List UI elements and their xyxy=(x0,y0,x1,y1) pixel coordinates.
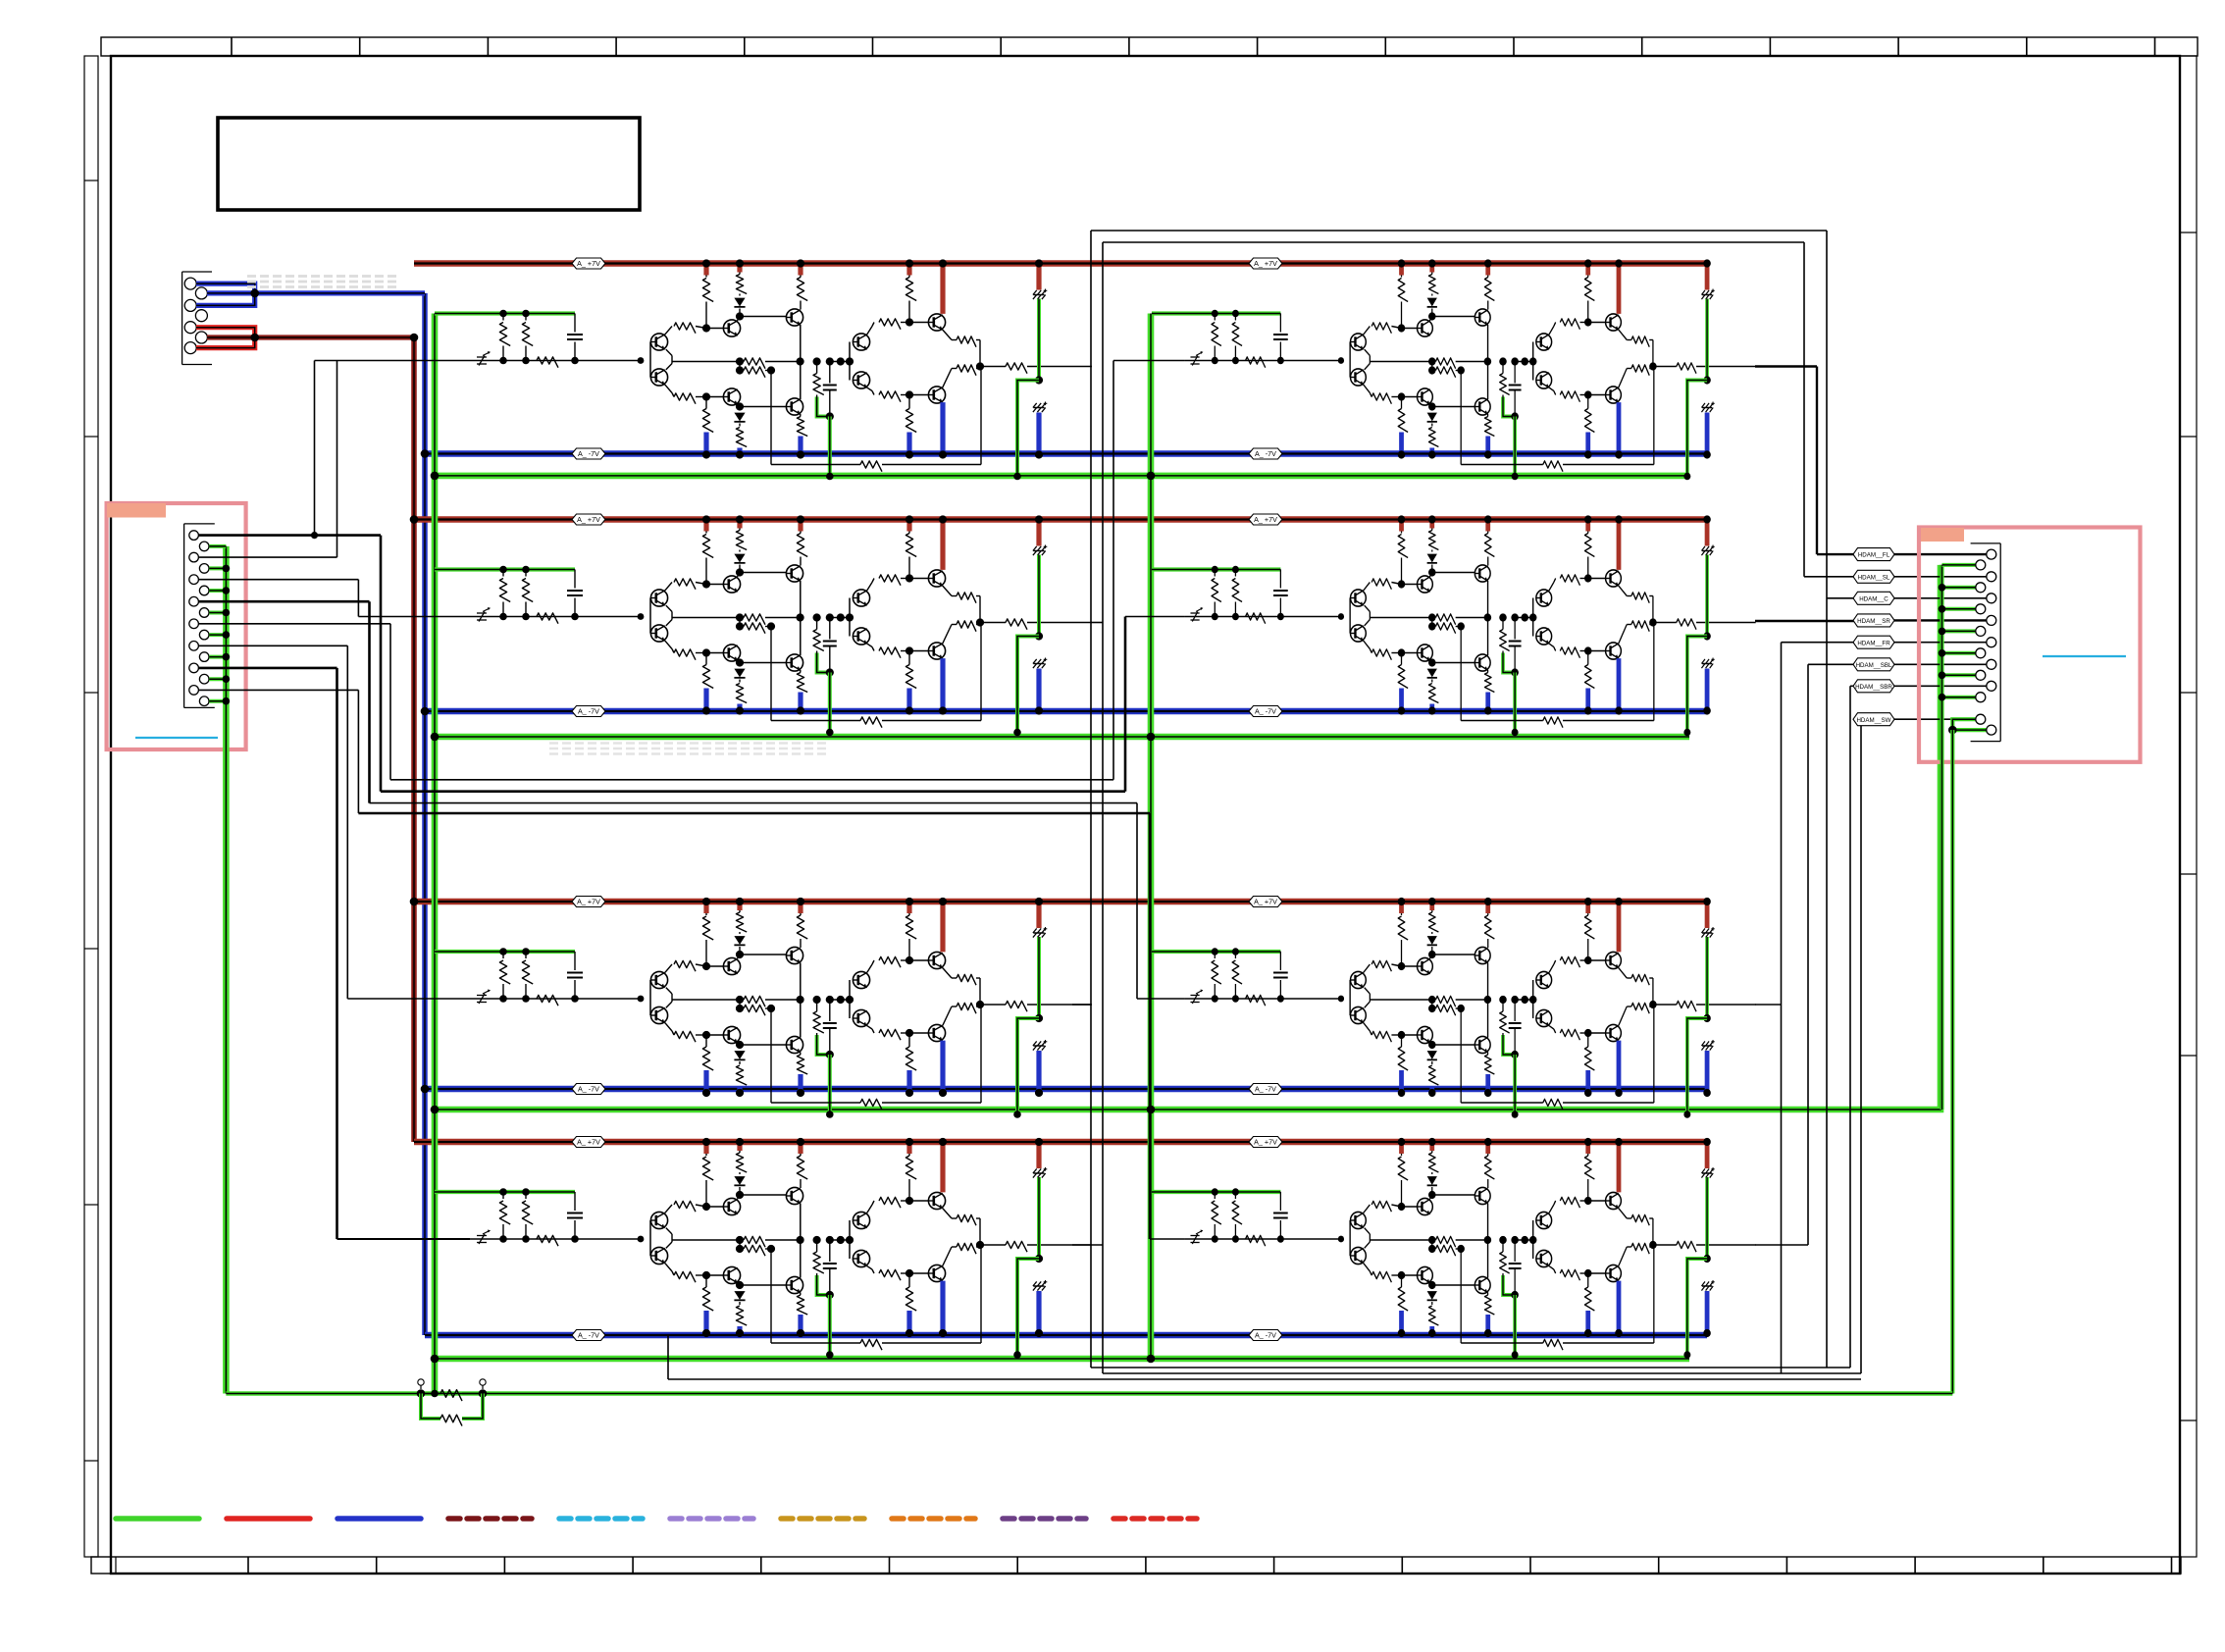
green ground spine from left connector xyxy=(223,546,230,1394)
ground stub wire xyxy=(209,677,226,681)
red power wires xyxy=(196,328,255,348)
legend swatch xyxy=(227,1516,310,1522)
-7V rail row1 xyxy=(425,450,1707,457)
ground stub wire xyxy=(209,566,226,570)
green pin stub xyxy=(1942,586,1976,590)
amp block row4 left xyxy=(435,1138,1092,1359)
label to pin wire xyxy=(1894,642,1987,644)
svg-text:A_ -7V: A_ -7V xyxy=(1255,1085,1276,1094)
wire from pin 7 xyxy=(198,667,336,670)
ground stub wire xyxy=(209,655,226,659)
svg-text:HDAM__SBR: HDAM__SBR xyxy=(1855,684,1892,691)
output net SW xyxy=(1072,1244,1103,1246)
-7V feed wire xyxy=(422,293,428,1335)
green bus row4 xyxy=(435,1356,1689,1363)
zobel loop resistor R2 xyxy=(421,1394,440,1420)
legend swatch xyxy=(1113,1516,1197,1522)
svg-text:A_ -7V: A_ -7V xyxy=(1255,1331,1276,1340)
test point circles xyxy=(418,1379,424,1385)
legend swatch xyxy=(781,1516,864,1522)
svg-text:A_ -7V: A_ -7V xyxy=(1255,449,1276,458)
svg-text:A_ -7V: A_ -7V xyxy=(578,449,599,458)
svg-text:HDAM__SW: HDAM__SW xyxy=(1856,717,1890,724)
salmon tab left xyxy=(107,503,166,518)
legend swatch xyxy=(116,1516,199,1522)
wire from pin 3 xyxy=(198,579,358,581)
green pin stub xyxy=(1942,696,1976,699)
bottom green ground line xyxy=(226,1391,1952,1396)
svg-text:HDAM__SR: HDAM__SR xyxy=(1857,618,1890,625)
label to pin wire xyxy=(1894,663,1987,665)
connector CN right bracket xyxy=(1999,543,2001,742)
green spine left xyxy=(432,314,439,1394)
connector power CN top-left bracket xyxy=(181,272,183,365)
title block xyxy=(218,118,640,210)
output net C xyxy=(1090,231,1092,1368)
+7V feed wire xyxy=(411,337,417,1142)
connector power CN pins xyxy=(184,278,196,289)
tangle verticals xyxy=(314,361,316,536)
output net SBL xyxy=(1755,1244,1808,1246)
cyan line right xyxy=(2043,655,2126,657)
output net SR xyxy=(1755,620,1857,622)
amp block row2 right xyxy=(1152,515,1756,736)
ground stub wire xyxy=(209,699,226,703)
amp block row3 left xyxy=(435,898,1092,1118)
legend swatch xyxy=(892,1516,975,1522)
pink module box right xyxy=(1919,528,2141,762)
wire from pin 2 xyxy=(198,556,336,558)
blue power wires xyxy=(196,284,255,305)
connector CN left bracket xyxy=(183,524,185,708)
middle bus bundle xyxy=(390,779,1113,781)
connector CN left pins xyxy=(189,531,199,541)
svg-text:A_ +7V: A_ +7V xyxy=(577,1138,600,1147)
ground stub wire xyxy=(209,633,226,637)
svg-text:HDAM__SL: HDAM__SL xyxy=(1858,574,1890,581)
label to pin wire xyxy=(1894,685,1987,687)
green bus row1 xyxy=(435,473,1689,480)
amp block row1 right xyxy=(1152,259,1756,480)
label to pin wire xyxy=(1894,619,1987,621)
output net SBR xyxy=(1072,1004,1091,1006)
output net FR xyxy=(1755,1004,1782,1006)
svg-text:A_ -7V: A_ -7V xyxy=(1255,707,1276,716)
zobel resistor R1 xyxy=(421,1393,440,1395)
amp block row1 left xyxy=(435,259,1092,480)
pink module box left xyxy=(107,503,246,749)
amp block row3 right xyxy=(1152,898,1756,1118)
svg-text:A_ +7V: A_ +7V xyxy=(577,515,600,524)
green bus row2 xyxy=(435,734,1689,741)
+7V rail row3 xyxy=(414,899,1707,905)
ghost text xyxy=(247,275,398,278)
svg-text:A_ +7V: A_ +7V xyxy=(577,259,600,268)
amp block row2 left xyxy=(435,515,1092,736)
cyan line left xyxy=(135,737,218,739)
label to pin wire xyxy=(1894,718,1976,720)
legend swatch xyxy=(670,1516,753,1522)
amp block row4 right xyxy=(1152,1138,1756,1359)
green SW return xyxy=(1952,719,1987,730)
green pin stub xyxy=(1942,629,1976,633)
svg-text:HDAM__FR: HDAM__FR xyxy=(1857,640,1890,646)
green pin stub xyxy=(1942,563,1976,567)
ground stub wire xyxy=(209,589,226,593)
net labels A_+7V / A_-7V xyxy=(572,258,605,269)
-7V rail row3 xyxy=(425,1086,1707,1093)
svg-text:HDAM__SBL: HDAM__SBL xyxy=(1856,662,1892,669)
legend swatch xyxy=(559,1516,643,1522)
green bus row3 xyxy=(435,565,1940,1110)
label to pin wire xyxy=(1894,553,1987,555)
-7V rail row4 xyxy=(425,1332,1707,1339)
green spine mid xyxy=(1148,314,1155,1360)
green pin stub xyxy=(1942,651,1976,655)
output net SL xyxy=(1091,622,1103,624)
svg-text:A_ -7V: A_ -7V xyxy=(578,1331,599,1340)
green pin stub xyxy=(1942,607,1976,611)
green return drop xyxy=(1950,730,1954,1393)
HDAM net labels xyxy=(1853,548,1894,561)
legend swatch xyxy=(337,1516,421,1522)
legend swatch xyxy=(448,1516,532,1522)
label to pin wire xyxy=(1894,597,1987,599)
+7V rail row1 xyxy=(414,260,1707,267)
svg-text:A_ +7V: A_ +7V xyxy=(577,898,600,906)
wire from pin 6 xyxy=(198,645,347,646)
wire from pin 4 xyxy=(198,600,369,603)
+7V rail row2 xyxy=(414,516,1707,523)
svg-text:A_ +7V: A_ +7V xyxy=(1254,259,1277,268)
svg-text:HDAM__FL: HDAM__FL xyxy=(1858,552,1890,559)
wire from pin 8 xyxy=(198,689,358,691)
ground stub wire xyxy=(209,611,226,615)
legend swatch xyxy=(1003,1516,1086,1522)
svg-text:A_ +7V: A_ +7V xyxy=(1254,1138,1277,1147)
green pin stub xyxy=(1942,673,1976,677)
label to pin wire xyxy=(1894,576,1987,578)
svg-text:A_ -7V: A_ -7V xyxy=(578,707,599,716)
green spine right connector xyxy=(1940,565,1943,1110)
salmon tab right xyxy=(1921,528,1964,542)
bottom interconnect line 3 xyxy=(668,1378,1861,1380)
svg-text:A_ -7V: A_ -7V xyxy=(578,1085,599,1094)
+7V rail row4 xyxy=(414,1139,1707,1146)
output net FL xyxy=(1755,365,1817,367)
-7V rail row2 xyxy=(425,708,1707,715)
wire from pin 5 xyxy=(198,623,390,625)
svg-text:HDAM__C: HDAM__C xyxy=(1859,595,1889,602)
svg-text:A_ +7V: A_ +7V xyxy=(1254,898,1277,906)
ground stub wire xyxy=(209,544,226,548)
wire from pin 1 xyxy=(198,534,381,537)
connector CN right pins xyxy=(1987,549,1996,559)
block input extensions xyxy=(315,360,471,362)
svg-text:A_ +7V: A_ +7V xyxy=(1254,515,1277,524)
